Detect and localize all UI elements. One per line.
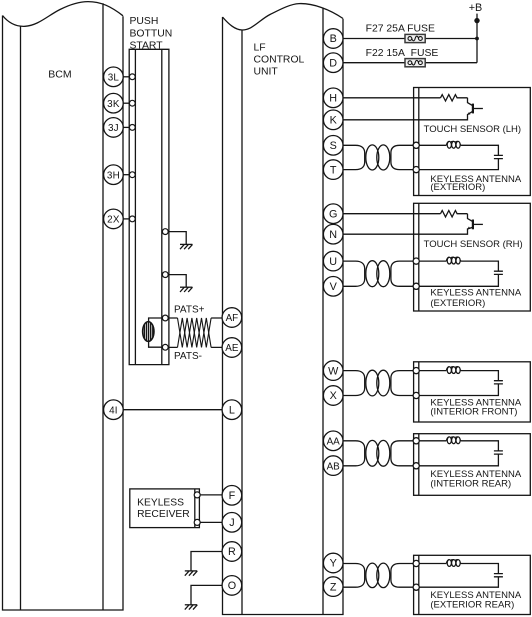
svg-text:2X: 2X (107, 215, 120, 226)
svg-text:Y: Y (330, 558, 337, 570)
push-button unit right pin circle at y=231.6 (162, 229, 168, 235)
wire BCM pin to push-button unit pin at y=127.4 (123, 126, 129, 128)
push-button unit PATS- pin circle (162, 344, 168, 350)
ground symbol (180, 287, 193, 292)
ground (R) (185, 571, 198, 576)
KEYLESS RECEIVER box (130, 489, 200, 528)
svg-text:4I: 4I (109, 405, 118, 416)
touch sensor (RH) + keyless antenna (exterior) box (414, 203, 531, 311)
LF control unit pin AF (222, 308, 242, 328)
BCM connector pin 4I (104, 400, 124, 420)
svg-text:KEYLESS ANTENNA: KEYLESS ANTENNA (430, 288, 521, 299)
svg-text:(EXTERIOR): (EXTERIOR) (430, 298, 485, 309)
twisted pair loops Y/Z (343, 563, 413, 588)
LF control unit pin N (323, 224, 343, 244)
LF control unit pin W (323, 361, 343, 381)
wire keyless receiver to F (200, 494, 222, 496)
svg-text:+B: +B (469, 2, 483, 14)
push-button unit right pin circle at y=274.6 (162, 272, 168, 278)
wire PATS- stub (168, 346, 222, 348)
LF control unit pin F (222, 486, 242, 506)
svg-text:Z: Z (330, 581, 337, 593)
svg-text:J: J (229, 517, 234, 529)
svg-text:3L: 3L (108, 73, 120, 84)
wire BCM pin to push-button unit pin at y=174.7 (123, 174, 129, 176)
svg-text:PUSH: PUSH (130, 16, 159, 27)
svg-text:W: W (328, 365, 339, 377)
push-button unit left pin circle at y=218.9 (129, 216, 135, 222)
LF control unit pin S (323, 136, 343, 156)
svg-text:AB: AB (327, 461, 341, 472)
svg-text:AA: AA (327, 437, 341, 448)
keyless receiver pin circle (bottom) (194, 519, 200, 525)
ground (O) (185, 605, 198, 610)
svg-text:CONTROL: CONTROL (254, 55, 305, 66)
svg-text:T: T (330, 164, 337, 176)
svg-text:AF: AF (226, 313, 239, 324)
svg-text:G: G (329, 208, 337, 220)
LF control unit pin L (222, 400, 242, 420)
wire B to fuse F27 to +B (343, 38, 477, 40)
BCM connector pin 3H (104, 165, 124, 185)
wire keyless receiver to J (200, 521, 222, 523)
wire D to fuse F22 to +B (343, 62, 477, 64)
LF control unit pin J (222, 513, 242, 533)
twisted pair loops U/V (343, 261, 413, 287)
junction dot at B wire (475, 37, 479, 41)
svg-text:B: B (330, 33, 337, 45)
BCM connector pin 3L (104, 67, 124, 87)
wire from pin to ground at y=231.6 (168, 232, 186, 245)
LF control unit pin V (323, 277, 343, 297)
svg-text:(EXTERIOR): (EXTERIOR) (430, 182, 485, 193)
wire BCM 4I to LF control unit L (123, 409, 222, 411)
LF control unit pin O (222, 576, 242, 596)
push-button unit left pin circle at y=174.7 (129, 172, 135, 178)
svg-text:F22 15A FUSE: F22 15A FUSE (366, 48, 439, 59)
LF control unit pin Y (323, 553, 343, 573)
LF control unit pin Z (323, 577, 343, 597)
svg-text:AE: AE (225, 343, 239, 354)
wire BCM pin to push-button unit pin at y=218.9 (123, 218, 129, 220)
wire PATS+ stub (168, 317, 222, 319)
fuse F27 25A (405, 34, 425, 42)
LF control unit pin T (323, 160, 343, 180)
svg-text:(INTERIOR REAR): (INTERIOR REAR) (430, 478, 511, 489)
BCM unit box with torn wavy top (3, 2, 124, 610)
LF control unit pin AE (222, 338, 242, 358)
LF control unit pin U (323, 251, 343, 271)
LF control unit pin D (323, 53, 343, 73)
PUSH BOTTUN START unit box (double-walled sides) (129, 49, 169, 364)
LF control unit pin R (222, 542, 242, 562)
touch sensor (RH): resistor + transistor (343, 211, 483, 235)
svg-text:H: H (329, 93, 337, 105)
LF CONTROL UNIT box with torn wavy top (223, 4, 344, 615)
svg-text:S: S (330, 140, 337, 152)
twisted-pair zigzag wires PATS+ / PATS- to AF/AE (178, 318, 212, 347)
LF control unit pin AA (323, 431, 343, 451)
keyless antenna (exterior rear) box (414, 555, 531, 614)
wire R to ground (191, 552, 222, 571)
svg-text:PATS-: PATS- (174, 351, 202, 362)
svg-text:R: R (228, 546, 236, 558)
BCM connector pin 3J (104, 118, 124, 138)
fuse F22 15A (405, 59, 425, 67)
LF CONTROL UNIT label (254, 43, 305, 78)
wire BCM pin to push-button unit pin at y=76.8 (123, 76, 129, 78)
svg-text:3H: 3H (107, 170, 120, 181)
svg-text:N: N (329, 229, 337, 241)
svg-text:(INTERIOR FRONT): (INTERIOR FRONT) (430, 406, 517, 417)
touch sensor (LH): resistor + transistor (343, 95, 483, 120)
svg-text:TOUCH SENSOR (LH): TOUCH SENSOR (LH) (424, 124, 521, 135)
svg-text:RECEIVER: RECEIVER (137, 509, 190, 520)
svg-text:BCM: BCM (48, 69, 71, 81)
push-button unit PATS+ pin circle (162, 315, 168, 321)
transponder coil wiring bracket (149, 318, 163, 347)
svg-text:O: O (228, 580, 236, 592)
svg-text:X: X (330, 390, 337, 402)
wire from pin to ground at y=274.6 (168, 275, 186, 288)
+B supply vertical wire (476, 14, 478, 63)
touch sensor (LH) + keyless antenna (exterior) box (414, 88, 531, 196)
svg-text:3J: 3J (108, 123, 119, 134)
push-button unit left pin circle at y=103.2 (129, 100, 135, 106)
BCM connector pin 3K (104, 93, 124, 113)
PUSH BOTTUN START unit label (130, 16, 173, 52)
wire O to ground (191, 585, 222, 604)
svg-text:(EXTERIOR REAR): (EXTERIOR REAR) (430, 600, 514, 611)
junction dot below +B (474, 18, 479, 23)
LF control unit pin X (323, 386, 343, 406)
svg-text:V: V (330, 281, 338, 293)
LF control unit pin B (323, 29, 343, 49)
push-button unit left pin circle at y=76.8 (129, 74, 135, 80)
svg-text:D: D (329, 57, 337, 69)
svg-text:L: L (229, 404, 235, 416)
LF control unit pin G (323, 204, 343, 224)
keyless antenna (interior front) box (414, 362, 531, 422)
svg-text:LF: LF (254, 43, 266, 54)
svg-text:F27 25A FUSE: F27 25A FUSE (366, 24, 435, 35)
BCM connector pin 2X (104, 209, 124, 229)
ground symbol (180, 244, 193, 249)
svg-text:F: F (229, 490, 236, 502)
svg-text:U: U (329, 256, 337, 268)
twisted pair loops AA/AB (343, 440, 413, 466)
svg-text:BOTTUN: BOTTUN (130, 28, 173, 39)
wire BCM pin to push-button unit pin at y=103.2 (123, 102, 129, 104)
LF control unit pin H (323, 88, 343, 108)
LF control unit pin K (323, 110, 343, 130)
push-button unit left pin circle at y=127.4 (129, 125, 135, 131)
svg-text:UNIT: UNIT (254, 66, 279, 77)
keyless receiver pin circle (top) (194, 492, 200, 498)
svg-text:KEYLESS: KEYLESS (137, 498, 184, 509)
svg-text:TOUCH SENSOR (RH): TOUCH SENSOR (RH) (424, 239, 523, 250)
twisted pair loops S/T (343, 145, 413, 170)
svg-text:PATS+: PATS+ (174, 305, 205, 316)
svg-text:3K: 3K (107, 99, 120, 110)
KEYLESS RECEIVER label (137, 498, 190, 520)
svg-text:K: K (330, 115, 338, 127)
keyless antenna (interior rear) box (414, 434, 531, 496)
LF control unit pin AB (323, 456, 343, 476)
twisted pair loops W/X (343, 370, 413, 396)
